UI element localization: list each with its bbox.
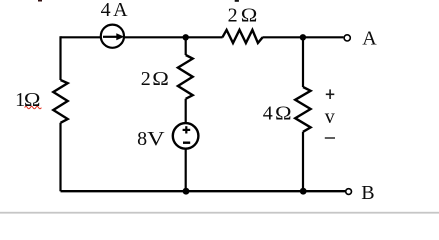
- svg-text:4: 4: [263, 103, 273, 125]
- svg-text:v: v: [325, 106, 335, 128]
- svg-text:B: B: [361, 182, 374, 204]
- svg-text:2: 2: [228, 5, 238, 27]
- svg-text:Ω: Ω: [241, 5, 258, 27]
- svg-text:Ω: Ω: [24, 89, 41, 111]
- svg-text:A: A: [362, 28, 377, 50]
- svg-text:A: A: [113, 0, 128, 21]
- svg-text:2: 2: [141, 68, 151, 90]
- svg-text:8: 8: [137, 128, 147, 150]
- svg-text:V: V: [147, 128, 165, 150]
- svg-text:Ω: Ω: [275, 103, 292, 125]
- svg-text:Ω: Ω: [152, 68, 169, 90]
- svg-text:4: 4: [101, 0, 111, 21]
